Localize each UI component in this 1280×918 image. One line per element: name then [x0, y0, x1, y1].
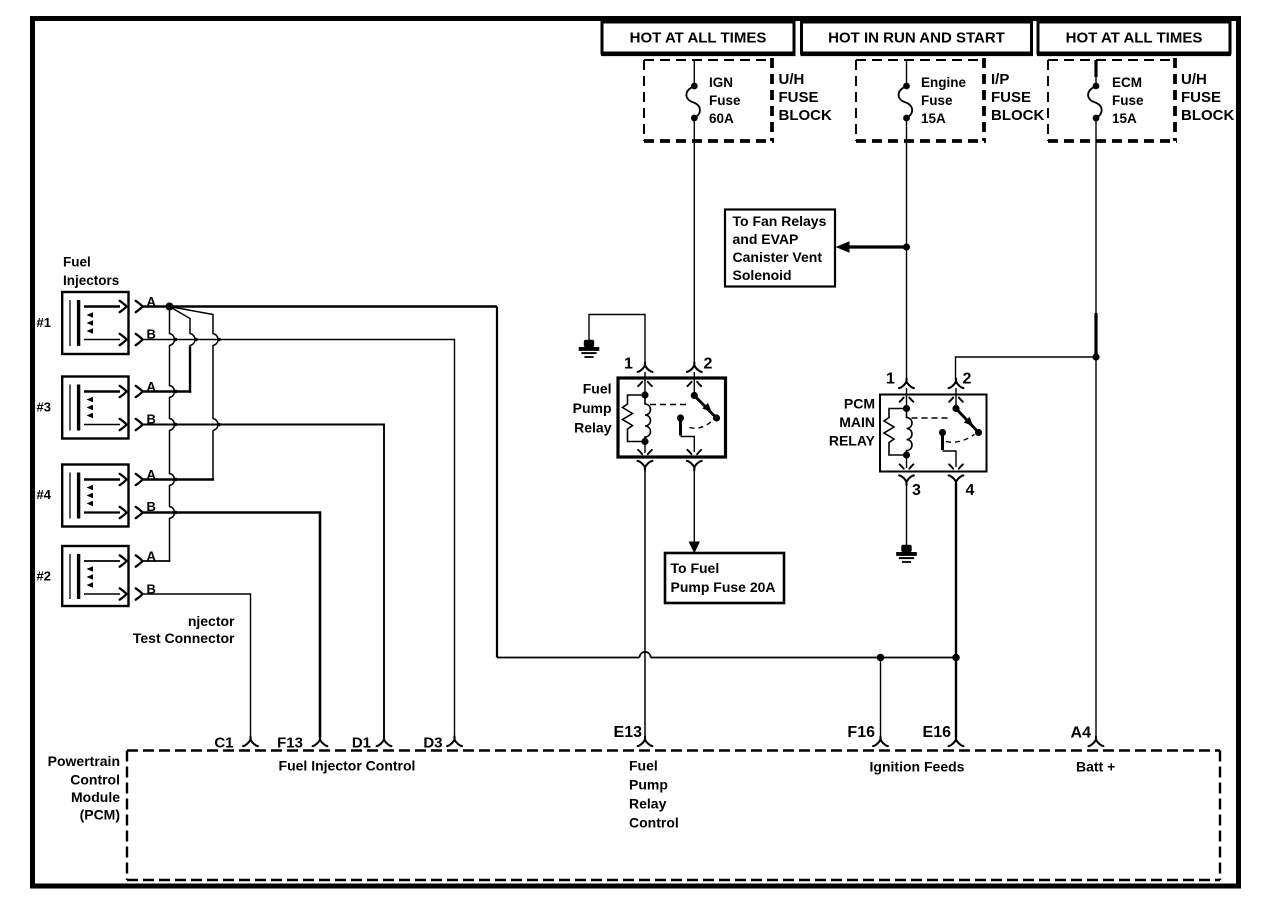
junction dot injector feed — [166, 303, 174, 311]
wire: feed corner down to bus — [496, 307, 498, 658]
relay K2 fixed contact — [939, 429, 946, 436]
wire: feed tap to fan relays (thick) — [847, 245, 907, 248]
net label HOT AT ALL TIMES (right) — [1037, 22, 1231, 55]
svg-text:To Fan Relays: To Fan Relays — [733, 213, 827, 229]
svg-text:ECM: ECM — [1112, 75, 1142, 90]
wire: branch 3 from feed dot to injector #4 A with hops — [170, 307, 219, 480]
wire: K1 coil output down to PCM pin E13 — [644, 469, 646, 737]
svg-text:Test Connector: Test Connector — [133, 630, 235, 646]
connector PCM pin E16 — [949, 737, 964, 747]
connector pin 2 fuel pump relay — [687, 362, 702, 372]
relay K1 switch arm — [694, 396, 716, 419]
wire: injector #1 A feed (thick) to corner — [143, 305, 497, 308]
node box: To Fan Relays and EVAP Canister Vent Solenoid — [725, 210, 835, 287]
relay K2 switch arm — [956, 409, 979, 433]
svg-text:BLOCK: BLOCK — [779, 107, 832, 124]
svg-text:1: 1 — [624, 356, 633, 373]
svg-text:Solenoid: Solenoid — [733, 267, 792, 283]
net label HOT AT ALL TIMES (left) — [601, 22, 796, 55]
svg-text:#1: #1 — [37, 315, 51, 330]
connector PCM pin E13 — [638, 737, 653, 747]
svg-text:Fuel: Fuel — [63, 255, 91, 270]
wire: injector feed bus horizontal — [497, 652, 956, 658]
label PCM MAIN RELAY — [829, 396, 876, 449]
svg-text:Fuel: Fuel — [583, 381, 612, 397]
svg-text:U/H: U/H — [779, 71, 805, 88]
wire: F16 drop — [880, 658, 882, 738]
svg-text:Engine: Engine — [921, 75, 966, 90]
connector below K1 coil pin — [638, 461, 653, 471]
svg-text:2: 2 — [963, 371, 972, 388]
svg-text:15A: 15A — [921, 111, 946, 126]
connector pin 1 PCM main relay — [899, 379, 914, 389]
connector PCM pin F13 — [313, 737, 328, 747]
label Injector Test Connector — [133, 613, 235, 646]
svg-text:BLOCK: BLOCK — [991, 107, 1044, 124]
svg-text:60A: 60A — [709, 111, 734, 126]
svg-text:FUSE: FUSE — [1181, 89, 1221, 106]
label Fuel Injectors — [63, 255, 119, 289]
wire: injector #4 A to branch 3 — [143, 478, 214, 480]
svg-text:3: 3 — [912, 482, 921, 499]
injector #4 — [37, 465, 157, 527]
wire: pin 4 down to E16 (thick) — [955, 484, 957, 738]
svg-text:#2: #2 — [37, 569, 51, 584]
relay K1 coil — [645, 395, 651, 442]
connector below K1 switch pin — [687, 461, 702, 471]
wire: K1 to fuel pump fuse arrow — [693, 469, 695, 542]
svg-text:and EVAP: and EVAP — [733, 231, 799, 247]
net label HOT IN RUN AND START — [801, 22, 1034, 55]
svg-text:HOT AT ALL TIMES: HOT AT ALL TIMES — [630, 30, 767, 47]
svg-text:Fuse: Fuse — [709, 93, 741, 108]
connector PCM pin C1 — [243, 737, 258, 747]
wire: injector #2 A to branch 1 — [143, 560, 170, 562]
svg-text:E13: E13 — [614, 724, 643, 741]
U/H fuse block (IGN fuse) dashed box — [644, 58, 774, 141]
svg-text:4: 4 — [966, 482, 975, 499]
label U/H FUSE BLOCK (right) — [1181, 71, 1234, 124]
wire: fuel pump relay pin 1 to ground loop — [589, 315, 645, 364]
label I/P FUSE BLOCK — [991, 71, 1044, 124]
svg-text:MAIN: MAIN — [839, 414, 875, 430]
svg-text:I/P: I/P — [991, 71, 1009, 88]
relay K2 PCM main relay box — [880, 395, 987, 472]
svg-text:Ignition Feeds: Ignition Feeds — [870, 759, 965, 775]
junction dot E16 feed — [952, 654, 960, 662]
svg-text:Fuel: Fuel — [629, 758, 658, 774]
junction dot F16 feed — [877, 654, 885, 662]
relay K1 pin2 entry ticks — [687, 382, 701, 386]
svg-text:Injectors: Injectors — [63, 273, 119, 288]
svg-text:HOT AT ALL TIMES: HOT AT ALL TIMES — [1066, 30, 1203, 47]
svg-text:Fuel Injector Control: Fuel Injector Control — [279, 758, 416, 774]
svg-text:Batt +: Batt + — [1076, 759, 1115, 775]
fuse IGN 60A — [686, 60, 741, 126]
svg-text:(PCM): (PCM) — [80, 807, 120, 823]
connector PCM pin D3 — [447, 737, 462, 747]
svg-text:Fuse: Fuse — [1112, 93, 1144, 108]
wire: injector #4 B to PCM pin F13 (thick) — [143, 513, 320, 738]
svg-text:#4: #4 — [37, 487, 52, 502]
label Fuel Pump Relay — [573, 381, 612, 436]
connector pin 1 fuel pump relay — [638, 362, 653, 372]
svg-text:1: 1 — [886, 371, 895, 388]
svg-text:2: 2 — [704, 356, 713, 373]
relay K2 exit ticks — [900, 464, 914, 468]
wire: branch 1 from feed dot to injector #2 A with hops — [170, 307, 175, 562]
svg-text:#3: #3 — [37, 400, 51, 415]
wire: IGN fuse to fuel pump relay pin 2 — [693, 118, 695, 363]
svg-text:15A: 15A — [1112, 111, 1137, 126]
relay K1 coil wire from pin1 — [644, 372, 646, 395]
relay K2 coil-to-switch dashed link — [912, 417, 951, 419]
svg-text:F16: F16 — [847, 724, 875, 741]
wire: injector #3 A to branch 2 (thick) — [143, 390, 191, 393]
svg-text:PCM: PCM — [844, 396, 875, 412]
svg-text:F13: F13 — [277, 735, 303, 752]
svg-text:Control: Control — [70, 772, 120, 788]
svg-text:IGN: IGN — [709, 75, 733, 90]
svg-text:U/H: U/H — [1181, 71, 1207, 88]
arrowhead into fan relay box — [836, 241, 850, 253]
wire: injector #1 B to PCM pin D3 — [143, 340, 455, 738]
connector PCM pin A4 — [1089, 737, 1104, 747]
wire: branch 2 from feed dot to injector #3 A with hop — [170, 307, 196, 349]
relay K2 resistor (parallel) — [884, 409, 907, 456]
injector #2 — [37, 546, 157, 606]
svg-text:Pump: Pump — [573, 400, 612, 416]
svg-text:HOT IN RUN AND START: HOT IN RUN AND START — [828, 30, 1005, 47]
svg-text:Control: Control — [629, 815, 679, 831]
svg-text:RELAY: RELAY — [829, 433, 876, 449]
svg-text:njector: njector — [188, 613, 235, 629]
svg-text:To Fuel: To Fuel — [671, 560, 720, 576]
relay K2 pin1 entry ticks — [900, 398, 914, 402]
fuse Engine 15A — [899, 60, 967, 126]
connector PCM pin D1 — [377, 737, 392, 747]
relay K1 coil output wire — [644, 442, 646, 454]
relay K1 resistor (parallel) — [623, 395, 646, 442]
wire: injector #3 B to PCM pin D1 — [143, 425, 384, 738]
injector #3 — [37, 377, 157, 439]
svg-text:D3: D3 — [423, 735, 442, 752]
ground G102 — [896, 545, 917, 563]
relay K1 pin1 entry ticks — [638, 382, 652, 386]
svg-text:Pump: Pump — [629, 777, 668, 793]
relay K2 coil wire — [906, 388, 908, 409]
relay K1 coil-to-switch dashed link — [650, 404, 689, 406]
relay K2 pin2 entry ticks — [949, 398, 963, 402]
connector pin 4 PCM main relay — [949, 475, 964, 485]
label U/H FUSE BLOCK (left) — [779, 71, 832, 124]
fuse ECM 15A — [1088, 60, 1144, 126]
connector pin 2 PCM main relay — [949, 379, 964, 389]
wire: Engine fuse to PCM main relay pin 1 — [906, 118, 908, 380]
relay K2 switch common dot — [955, 388, 957, 409]
junction on Engine fuse feed — [903, 243, 910, 250]
relay K1 alternate contact dashed — [690, 421, 713, 429]
relay K1 fixed contact — [677, 414, 684, 421]
wire: pin 3 to ground — [906, 484, 908, 546]
wire: ECM feed tap to PCM main relay pin 2 — [956, 357, 1097, 380]
svg-text:Fuse: Fuse — [921, 93, 953, 108]
svg-text:Relay: Relay — [629, 796, 667, 812]
svg-text:C1: C1 — [214, 735, 233, 752]
svg-text:FUSE: FUSE — [991, 89, 1031, 106]
relay K1 Fuel Pump Relay box — [618, 378, 726, 457]
label Powertrain Control Module (PCM) — [48, 753, 121, 823]
injector #1 — [37, 292, 157, 354]
relay K2 alternate contact dashed — [946, 435, 975, 443]
connector pin 3 PCM main relay — [899, 475, 914, 485]
hop crossing blobs — [174, 338, 221, 514]
wire: ECM fuse feed down to A4 with thick segment — [1092, 118, 1099, 737]
wire K2 coil to pin3 — [906, 455, 908, 468]
svg-text:Module: Module — [71, 789, 120, 805]
U/H fuse block (ECM fuse) dashed box — [1048, 58, 1177, 141]
ground G101 — [579, 340, 600, 358]
relay K1 switch common dot — [693, 372, 695, 396]
svg-text:A4: A4 — [1071, 725, 1092, 742]
svg-text:Powertrain: Powertrain — [48, 753, 120, 769]
svg-text:FUSE: FUSE — [779, 89, 819, 106]
connector PCM pin F16 — [873, 737, 888, 747]
svg-text:D1: D1 — [352, 735, 371, 752]
label Fuel Pump Relay Control — [629, 758, 679, 831]
PCM dashed box — [127, 751, 1220, 881]
I/P fuse block (Engine fuse) dashed box — [856, 58, 986, 141]
wire: injector #2 B to PCM pin C1 — [143, 594, 251, 737]
node box: To Fuel Pump Fuse 20A — [665, 553, 784, 603]
svg-text:BLOCK: BLOCK — [1181, 107, 1234, 124]
svg-text:E16: E16 — [923, 724, 952, 741]
relay K2 coil — [907, 409, 913, 456]
svg-text:Canister Vent: Canister Vent — [733, 249, 823, 265]
svg-text:Relay: Relay — [574, 420, 612, 436]
svg-text:Pump Fuse 20A: Pump Fuse 20A — [671, 579, 776, 595]
